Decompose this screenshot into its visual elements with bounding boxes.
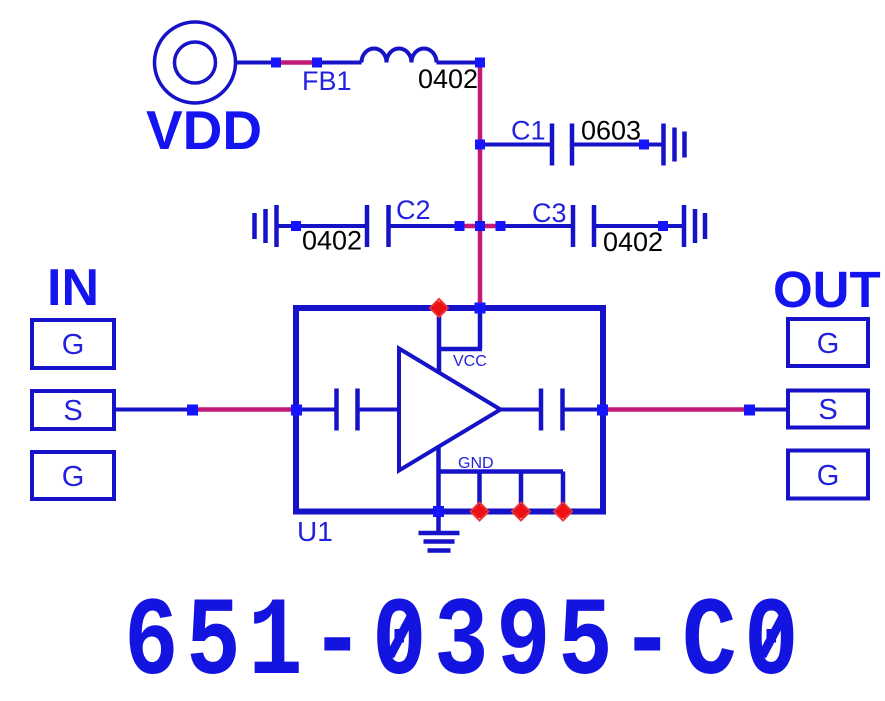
pad S (OUT) <box>788 391 868 428</box>
wire VDD vertical rail (magenta) <box>478 63 483 309</box>
ground (right of C1) <box>664 124 685 166</box>
node C2/C3 rail tap <box>475 221 485 231</box>
wire GND pin vertical <box>436 447 441 533</box>
wire C3 to ground <box>594 224 684 228</box>
title 651-0395-C0 <box>124 581 806 701</box>
slash in zero of 0395 <box>390 611 414 656</box>
ground (right of C3) <box>684 205 705 247</box>
wire (magenta) output net <box>603 407 750 412</box>
node U1 ground pin <box>433 506 444 517</box>
wire node to S pad <box>750 408 789 412</box>
node C3 ground lead <box>658 221 668 231</box>
svg-text:0603: 0603 <box>581 116 641 146</box>
node U1 input pin <box>291 405 302 416</box>
wire to C1 <box>480 143 552 147</box>
node C1 tap <box>475 140 485 150</box>
svg-text:S: S <box>63 395 82 427</box>
node at FB1 pin 1 <box>312 58 322 68</box>
svg-text:G: G <box>817 460 840 492</box>
wire (magenta) input net <box>193 407 297 412</box>
pad G (IN top) <box>32 320 114 368</box>
pin marker VCC (red) <box>430 299 448 317</box>
pad S (IN) <box>32 391 114 429</box>
svg-text:VDD: VDD <box>146 99 262 161</box>
svg-text:G: G <box>62 329 85 361</box>
wire (magenta) rail to node <box>480 224 501 229</box>
wire (net segment, magenta) <box>276 60 317 65</box>
pin marker GND 1 (red) <box>471 503 489 521</box>
ground (left of C2) <box>255 205 277 247</box>
wire ground to C2 <box>277 224 368 228</box>
wire GND tooth 3 <box>561 472 566 512</box>
node U1 output pin <box>597 405 608 416</box>
wire C1 to ground <box>572 143 664 147</box>
node U1 VCC entry <box>475 303 486 314</box>
svg-text:G: G <box>62 461 85 493</box>
svg-text:C3: C3 <box>532 198 567 228</box>
power connector VDD <box>155 22 236 103</box>
wire VDD connector to node <box>236 61 276 65</box>
wire GND tooth 1 <box>477 472 482 512</box>
node output <box>744 405 755 416</box>
svg-text:FB1: FB1 <box>302 66 352 96</box>
svg-text:GND: GND <box>458 455 494 472</box>
wire GND tooth 2 <box>519 472 524 512</box>
ferrite bead FB1 <box>362 49 437 63</box>
node input <box>187 405 198 416</box>
svg-text:0402: 0402 <box>418 64 478 94</box>
node at VDD wire <box>271 58 281 68</box>
capacitor C1 <box>552 124 572 166</box>
wire GND comb horizontal <box>439 469 564 474</box>
svg-text:C2: C2 <box>396 195 431 225</box>
pad G (OUT top) <box>788 319 868 366</box>
node left of rail tap <box>455 221 465 231</box>
wire node to FB1 <box>317 61 362 65</box>
wire cap to amp <box>358 408 400 412</box>
svg-text:U1: U1 <box>297 516 333 547</box>
wire VCC step horizontal <box>437 347 482 352</box>
wire (magenta) node to rail <box>460 224 481 229</box>
capacitor C2 <box>367 205 389 247</box>
wire output cap to U1 edge <box>563 408 604 412</box>
capacitor C3 <box>573 205 594 247</box>
svg-text:651-0395-C0: 651-0395-C0 <box>124 581 806 696</box>
ground (below U1) <box>419 533 460 551</box>
svg-text:S: S <box>818 394 837 426</box>
svg-text:IN: IN <box>47 259 99 317</box>
svg-text:C1: C1 <box>511 116 546 146</box>
pin marker GND 3 (red) <box>554 503 572 521</box>
amplifier U1 body <box>296 308 603 512</box>
pad G (IN bottom) <box>32 452 114 499</box>
wire amp to output cap <box>501 408 542 412</box>
svg-text:VCC: VCC <box>453 353 487 370</box>
svg-text:G: G <box>817 328 840 360</box>
wire U1 input lead <box>296 408 337 412</box>
wire VCC pin vertical <box>437 308 442 373</box>
svg-text:OUT: OUT <box>773 261 881 318</box>
capacitor (U1 input blocking) <box>337 389 358 431</box>
wire node to C3 <box>501 224 574 228</box>
wire S pad to node <box>116 408 193 412</box>
wire C2 to node <box>389 224 460 228</box>
node C2 ground lead <box>291 221 301 231</box>
svg-text:0402: 0402 <box>302 226 362 256</box>
wire FB1 to top node <box>437 61 481 65</box>
node right of rail tap <box>496 221 506 231</box>
pin marker GND 2 (red) <box>512 503 530 521</box>
pad G (OUT bottom) <box>788 451 868 499</box>
slash in zero of C0 <box>762 611 786 656</box>
wire VCC step vertical <box>478 308 483 349</box>
svg-text:0402: 0402 <box>603 227 663 257</box>
node C1 ground lead <box>639 140 649 150</box>
op-amp triangle U1 <box>399 349 501 471</box>
capacitor (U1 output blocking) <box>541 389 563 431</box>
node top of VDD rail <box>475 58 485 68</box>
